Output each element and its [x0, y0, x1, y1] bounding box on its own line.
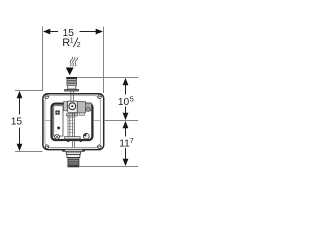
- left dimension extension line top: [15, 90, 43, 92]
- top dimension extension line right: [103, 27, 105, 94]
- right dimension line upper (10.5): [125, 84, 127, 95]
- outlet pipe stub in box: [71, 141, 73, 147]
- valve bridge bar: [67, 114, 78, 116]
- outlet flange bar: [63, 149, 85, 151]
- door bottom tabs: [67, 140, 69, 142]
- service door frame: [52, 104, 93, 140]
- inlet fitting body: [67, 79, 77, 86]
- flush tube verticals: [68, 113, 74, 137]
- cam circle bottom-right: [83, 133, 89, 139]
- outlet lower collar: [67, 155, 80, 158]
- outlet spigot bottom cap: [68, 165, 78, 167]
- pipe break squiggle: [70, 57, 77, 67]
- protection box outer shell: [43, 94, 104, 150]
- svg-text:5: 5: [130, 94, 134, 103]
- inlet fitting neck: [68, 85, 76, 89]
- extension line middle right (outlet axis): [104, 120, 138, 122]
- mechanism bottom bar: [65, 137, 81, 139]
- inlet tube stub into box: [70, 91, 72, 101]
- box seam line left margin: [45, 120, 51, 122]
- inlet fitting flange: [64, 89, 79, 91]
- valve head small parts left: [64, 102, 68, 111]
- top dimension line 15: [49, 31, 59, 33]
- water supply arrow: [66, 68, 74, 76]
- valve circle: [69, 103, 76, 110]
- extension line from outlet bottom to right: [79, 166, 138, 168]
- svg-text:10: 10: [118, 97, 130, 108]
- valve head housing: [68, 101, 78, 112]
- corner screw top-left: [45, 95, 49, 99]
- valve body right gray block: [77, 102, 85, 113]
- protection box inner wall line: [45, 96, 101, 148]
- outlet threaded spigot: [68, 158, 79, 167]
- label square on panel: [55, 110, 59, 114]
- corner screw bottom-left: [45, 145, 49, 149]
- corner screw top-right: [98, 95, 102, 99]
- tube rungs: [68, 118, 75, 133]
- valve cartridge left panel: [54, 106, 63, 136]
- right dimension line lower (11.7): [123, 121, 129, 128]
- svg-text:1: 1: [70, 38, 74, 45]
- svg-text:7: 7: [130, 136, 134, 145]
- corner screw bottom-right: [98, 145, 102, 149]
- outlet upper collar: [66, 151, 81, 154]
- drain circle with cross bottom-left: [55, 135, 60, 140]
- inlet fitting cap: [66, 77, 77, 79]
- screw dot on panel: [57, 127, 60, 130]
- extension line from inlet to right dimension: [77, 77, 138, 79]
- left dimension extension line bottom: [15, 151, 42, 153]
- left dimension line 15: [19, 97, 21, 115]
- box seam line right margin: [94, 120, 100, 122]
- svg-text:15: 15: [11, 117, 23, 128]
- top dimension extension line left: [42, 27, 44, 91]
- svg-text:2: 2: [77, 42, 81, 49]
- svg-text:11: 11: [119, 138, 130, 149]
